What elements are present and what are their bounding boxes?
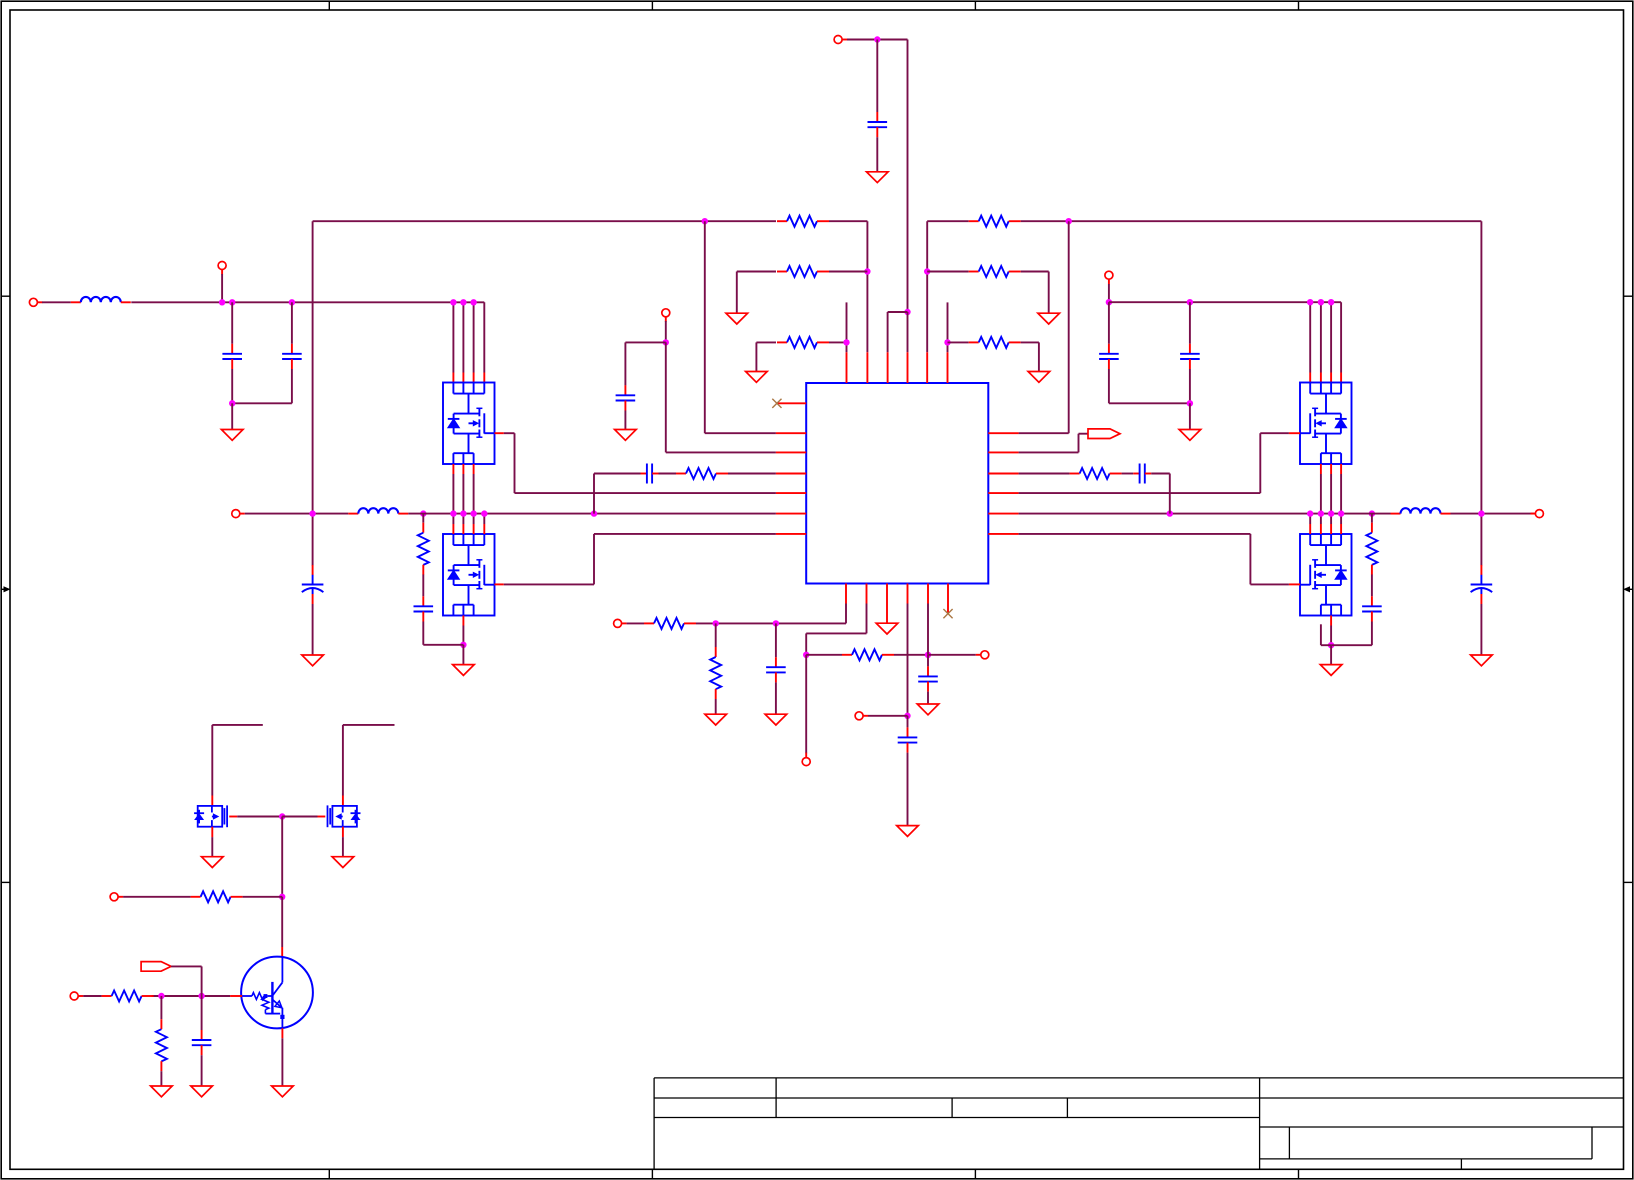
ground below R12: [705, 714, 727, 725]
wire tap down right: [1019, 221, 1069, 433]
resistor R15: [102, 991, 154, 1002]
wire to port P9: [928, 654, 976, 656]
junction rail Q3 pin a: [1307, 299, 1313, 305]
flag lead: [1079, 433, 1089, 435]
wire R16 to ground: [160, 1071, 162, 1086]
resistor R8: [1366, 523, 1377, 575]
junction drive node: [279, 894, 285, 900]
wire C3 top lead: [291, 302, 293, 344]
port P10 below: [802, 753, 810, 766]
wire L2 to U1: [408, 513, 776, 515]
emitter stub Q7: [281, 1028, 283, 1038]
wire row2 to ground: [736, 272, 738, 314]
wire C3 bottom to join: [232, 369, 292, 403]
wire R12 to ground: [715, 699, 717, 714]
junction bus snubber left: [420, 510, 426, 516]
wire node to Q7 collector: [281, 897, 283, 947]
wire row1 right to bus: [1480, 221, 1482, 513]
wire Q2 gate to U1: [504, 534, 776, 585]
ground below Q5: [202, 857, 224, 868]
capacitor C11: [641, 464, 659, 484]
ground below C13: [765, 714, 787, 725]
border zone tick bottom 2: [651, 1169, 653, 1179]
wire R9 to U1: [728, 473, 776, 475]
junction rail Q1 pin a: [450, 299, 456, 305]
port P4 above rail: [218, 262, 226, 275]
pin stub Q6 bottom: [342, 827, 344, 837]
capacitor C5: [616, 385, 636, 410]
pin stub Q5 top: [211, 796, 213, 806]
resistor R7: [418, 523, 429, 575]
wire pin line x947: [947, 302, 949, 352]
resistor R5: [969, 266, 1021, 277]
ground below C16: [191, 1086, 213, 1097]
wire row3 gnd stub: [755, 342, 757, 371]
wire P12 to R14: [123, 896, 191, 898]
wire C8 top lead: [1189, 302, 1191, 344]
capacitor C15: [898, 727, 918, 752]
port P5 row3 left: [662, 309, 670, 322]
ground below Q2: [453, 665, 475, 676]
port P12 drive: [110, 893, 123, 901]
capacitor C2: [222, 344, 242, 369]
wire P6 to L2: [245, 513, 348, 515]
wire row3 right a: [948, 341, 969, 343]
wire R13 to junction: [894, 654, 928, 656]
wire bus to R7: [422, 514, 424, 523]
junction y654 corner: [803, 652, 809, 658]
port P7 bus right: [1530, 510, 1543, 518]
resistor R10: [1070, 468, 1122, 479]
resistor R11: [644, 618, 696, 629]
wire C16 node down: [201, 996, 203, 1030]
ground below C4: [302, 655, 324, 666]
junction rail C7: [1187, 299, 1193, 305]
wire C2 top lead: [231, 302, 233, 344]
wire Q5 drain top: [212, 725, 262, 796]
wire row2 left: [737, 271, 776, 273]
wire P11 to junction: [868, 715, 908, 717]
resistor R4: [969, 216, 1021, 227]
wires Q3 source to bus: [1321, 474, 1341, 514]
transistor Q1 (high-side left): [443, 383, 495, 465]
wire row3 stub: [625, 342, 665, 385]
transistor Q2 (low-side left): [443, 534, 495, 616]
wire tap down to U1: [705, 221, 776, 433]
wire bus to C6: [1480, 514, 1482, 566]
resistor R2: [777, 266, 829, 277]
junction bus out cap: [1478, 510, 1484, 516]
port P2 right rail: [1105, 271, 1113, 284]
wire join to ground right: [1189, 403, 1191, 429]
junction row1 right tap: [1066, 218, 1072, 224]
border zone tick left 2: [1, 881, 10, 883]
pin stubs Q4 top: [1310, 524, 1341, 534]
gate lead Q2: [495, 583, 504, 585]
ground pin887: [876, 623, 898, 634]
resistor R9: [676, 468, 728, 479]
wire U1 to R10: [1019, 473, 1070, 475]
wire corner down to P10: [805, 655, 807, 754]
border zone tick top 2: [651, 1, 653, 10]
junction row1 tap: [702, 218, 708, 224]
wires bus to Q2 drain: [453, 514, 484, 524]
U1 right pin stubs: [988, 433, 1018, 534]
transistor Q5 (small left): [194, 805, 227, 827]
wire row1 to bus: [312, 221, 314, 513]
border centering arrow left: [1, 586, 10, 592]
ground below C15: [897, 826, 919, 837]
transistor Q7 (BJT with internal resistors): [241, 957, 313, 1029]
junction Q2 source gnd: [460, 642, 466, 648]
wire C12 to bus corner: [1151, 474, 1170, 514]
wire bus to R8: [1371, 514, 1373, 523]
wire C16 to ground: [201, 1055, 203, 1086]
wire stub left of Q4 gnd: [1321, 624, 1331, 645]
junction bus snubber right: [1369, 510, 1375, 516]
wire C15 to ground: [907, 753, 909, 826]
wire P4 down: [221, 274, 223, 302]
pin887 stub to gnd: [886, 604, 888, 624]
capacitor C4 polarized: [302, 565, 324, 604]
resistor R12: [710, 647, 721, 699]
wire P2 down: [1108, 284, 1110, 302]
wire R15 node down: [160, 996, 162, 1019]
wire Q2 source: [462, 626, 464, 645]
U1 bottom pin stubs: [846, 584, 948, 604]
junction row C13 tap: [773, 620, 779, 626]
capacitor C10: [1362, 596, 1382, 621]
wire row1 left: [313, 220, 776, 222]
wire C8 bottom: [1189, 369, 1191, 403]
wire R14 to node: [243, 896, 283, 898]
junction rail Q1 pin c: [470, 299, 476, 305]
wire R3 to pin line: [829, 341, 847, 343]
wire junction down to C14: [927, 655, 929, 667]
wire down to C1: [876, 40, 878, 113]
wire P8 to R11: [627, 622, 644, 624]
transistor Q4 (low-side right): [1300, 534, 1352, 616]
wire Q4 source: [1330, 626, 1332, 646]
junction row2 right: [924, 268, 930, 274]
inductor L3: [1391, 508, 1451, 513]
wire R5 to gnd corner: [1021, 272, 1049, 314]
capacitor C7: [1099, 344, 1119, 369]
border centering arrow right: [1623, 586, 1633, 592]
ground below Q4: [1320, 665, 1342, 676]
resistor R6: [969, 337, 1021, 348]
collector stub Q7: [281, 947, 283, 957]
wire power rail down: [907, 40, 909, 313]
wire x927 down: [926, 221, 928, 352]
wire node to Q6 gate: [282, 816, 317, 818]
wire C7 top lead: [1108, 302, 1110, 344]
junction power mid: [904, 309, 910, 315]
junction rail at C2: [229, 299, 235, 305]
wire Q6 drain top: [343, 725, 395, 796]
resistor R3: [777, 337, 829, 348]
junction bus q4b: [1318, 510, 1324, 516]
wire rc tap up: [594, 474, 641, 514]
ground below C14: [917, 704, 939, 715]
wires Q1 source to bus: [453, 474, 473, 514]
junction bus q4c: [1328, 510, 1334, 516]
junction bus q4d: [1338, 510, 1344, 516]
gate lead Q3: [1289, 432, 1300, 434]
wire R6 to gnd corner: [1021, 342, 1039, 371]
resistor R13: [842, 649, 894, 660]
border zone tick top 4: [1298, 1, 1300, 10]
junction pin907 port: [904, 713, 910, 719]
junction bus q2d: [481, 510, 487, 516]
wire C4 to ground: [312, 604, 314, 655]
transistor Q3 (high-side right): [1300, 383, 1352, 465]
ground below C6: [1471, 655, 1493, 666]
junction rail at C3: [289, 299, 295, 305]
resistor R1: [777, 216, 829, 227]
border zone tick bottom 4: [1298, 1169, 1300, 1179]
ground below C1: [867, 172, 889, 183]
port P3 left input: [29, 298, 42, 306]
junction rail Q3 pin c: [1328, 299, 1334, 305]
wire Q4 gate to U1: [1019, 534, 1289, 585]
port P8 bottom row1: [614, 619, 627, 627]
wire Q3 gate to U1: [1019, 433, 1289, 493]
wire C13 to ground: [775, 682, 777, 714]
wire P3 to L1: [42, 301, 71, 303]
junction base R15: [158, 993, 164, 999]
wire R7 to C9: [422, 575, 424, 597]
capacitor C1: [868, 112, 888, 137]
wire P5 down: [665, 321, 667, 342]
ground below R16: [151, 1086, 173, 1097]
junction row3 left: [663, 339, 669, 345]
ground below C5: [615, 430, 637, 441]
junction row3 pin line: [843, 339, 849, 345]
border zone tick bottom 3: [974, 1169, 976, 1179]
U1 top pin stubs: [847, 352, 948, 383]
wire Q5 gate to node: [237, 816, 282, 818]
wire tap to C13: [775, 623, 777, 657]
no-connect X on U1 bottom pin: [943, 609, 952, 618]
wire C5 to ground: [624, 411, 626, 430]
IC U1: [806, 383, 988, 584]
wire Q1 gate to U1: [504, 433, 776, 493]
wire C6 to ground: [1480, 604, 1482, 655]
wire base row: [152, 995, 231, 997]
no-connect X on U1 left pin: [772, 399, 781, 408]
ground row3 left: [746, 372, 768, 383]
pin stub Q4 bottom: [1330, 616, 1332, 626]
wire R10 to C12: [1122, 473, 1134, 475]
border zone tick top 3: [974, 1, 976, 10]
wire pin907 down: [907, 604, 909, 716]
wire L3 to P7: [1451, 513, 1536, 515]
wire power branch: [888, 312, 908, 352]
pin stubs Q1 bottom: [453, 464, 473, 474]
junction row3 right: [944, 339, 950, 345]
junction gate node: [279, 813, 285, 819]
port P13 base input: [70, 992, 83, 1000]
port P1 power input top: [834, 36, 847, 44]
gate lead Q6: [318, 816, 326, 818]
junction C7 C8 join: [1187, 400, 1193, 406]
wire pin line x846: [846, 302, 848, 352]
wire junction to C15: [907, 716, 909, 728]
wire emitter to ground: [281, 1038, 283, 1086]
gate lead Q1: [495, 432, 504, 434]
ground below C2: [221, 430, 243, 441]
pin stub Q2 bottom: [462, 616, 464, 626]
U1 left pin stubs: [776, 403, 806, 534]
wire right rail: [1109, 301, 1341, 303]
capacitor C16: [192, 1030, 212, 1055]
wire bus right segment: [1019, 513, 1391, 515]
junction row R12 tap: [713, 620, 719, 626]
wire C2 bottom: [231, 369, 233, 403]
capacitor C3: [282, 344, 302, 369]
inductor L2: [348, 508, 408, 513]
pin stub Q6 top: [342, 796, 344, 806]
ground below Q7: [272, 1086, 294, 1097]
wire row1 right: [927, 220, 969, 222]
pin stubs Q3 top: [1310, 373, 1341, 383]
junction rail at P4: [219, 299, 225, 305]
wire R2 to junction: [829, 271, 867, 273]
junction bus x312: [309, 510, 315, 516]
wire tap to R12: [715, 623, 717, 647]
gate lead Q5: [229, 816, 237, 818]
wire C11 to R9: [659, 473, 677, 475]
wire bus to C4: [312, 514, 314, 566]
capacitor C13: [766, 657, 786, 682]
junction right rail at P2: [1106, 299, 1112, 305]
wire R11 to pin: [696, 604, 846, 624]
border zone tick top 1: [328, 1, 330, 10]
junction rail Q3 pin b: [1318, 299, 1324, 305]
wire to ground Q4: [1330, 645, 1332, 664]
capacitor C12: [1133, 464, 1151, 484]
title block frame: [654, 1078, 1623, 1169]
pin stubs Q2 top: [453, 524, 484, 534]
wire C9 to join: [423, 622, 463, 645]
pin stub Q5 bottom: [211, 827, 213, 837]
wire row2 right a: [927, 271, 969, 273]
wire C10 to join: [1331, 622, 1372, 646]
base lead Q7: [230, 995, 242, 997]
capacitor C14: [918, 666, 938, 691]
junction bus rsense: [1167, 510, 1173, 516]
resistor R16: [156, 1019, 167, 1071]
border zone tick bottom 1: [328, 1169, 330, 1179]
wire Q5 source gnd: [211, 837, 213, 857]
ground row3 right: [1028, 372, 1050, 383]
port P11 mid: [855, 712, 868, 720]
pin948 stub: [947, 604, 949, 614]
junction row2 left: [864, 268, 870, 274]
wire row2b left: [806, 654, 842, 656]
junction top power: [874, 36, 880, 42]
ground row2 right: [1038, 313, 1060, 324]
wire gate node down: [281, 817, 283, 897]
wire join to ground: [231, 403, 233, 429]
wire C1 to ground: [876, 137, 878, 172]
junction bus q2a: [450, 510, 456, 516]
junction bus q2c: [470, 510, 476, 516]
transistor Q6 (small right): [328, 805, 361, 827]
wire U1 to flag: [1019, 434, 1079, 453]
wire C14 to ground: [927, 692, 929, 704]
gate lead Q4: [1289, 583, 1300, 585]
port P6 bus left: [232, 510, 245, 518]
wire rail to Q3 pins: [1310, 302, 1341, 372]
ground row2 left: [726, 313, 748, 324]
wire P13 to R15: [83, 995, 101, 997]
resistor R14: [191, 891, 243, 902]
wire L1 to rail corner: [131, 301, 484, 303]
wires bus to Q4 drain: [1310, 514, 1341, 524]
capacitor C6 polarized: [1471, 565, 1493, 604]
wire flag to node: [171, 966, 202, 996]
border zone tick right 2: [1624, 881, 1633, 883]
junction base C16: [198, 993, 204, 999]
wire C7 bottom to join: [1109, 369, 1190, 403]
wire Q6 source gnd: [342, 837, 344, 857]
port P9 row2b: [976, 651, 989, 659]
off-page flag F2: [141, 962, 171, 972]
capacitor C8: [1180, 344, 1200, 369]
pin stubs Q1 top: [453, 373, 484, 383]
ground below Q6: [332, 857, 354, 868]
wire row3 resistor left: [756, 341, 776, 343]
off-page flag F1: [1088, 429, 1120, 439]
wire pin866 to corner: [806, 604, 866, 655]
wire to ground Q2: [462, 645, 464, 665]
junction bus rc tap: [591, 510, 597, 516]
wire row3 to U1: [666, 342, 776, 452]
junction Q4 source gnd: [1328, 642, 1334, 648]
wire rail to Q1 pins: [453, 302, 484, 372]
wire R1 to corner: [829, 221, 867, 352]
wire P1 to junction: [847, 39, 908, 41]
inductor L1: [71, 297, 131, 302]
pin stubs Q3 bottom: [1321, 464, 1341, 474]
ground below C8: [1179, 430, 1201, 441]
wire R8 to C10: [1371, 575, 1373, 597]
junction C2 C3 join: [229, 400, 235, 406]
capacitor C9: [414, 596, 434, 621]
junction rail Q1 pin b: [460, 299, 466, 305]
border zone tick right 1: [1624, 295, 1633, 297]
wire pin928 down: [927, 604, 929, 655]
junction bus q2b: [460, 510, 466, 516]
junction bus q4a: [1307, 510, 1313, 516]
junction row2b pin928: [925, 652, 931, 658]
border zone tick left 1: [1, 295, 10, 297]
wire R4 to corner right: [1021, 220, 1482, 222]
